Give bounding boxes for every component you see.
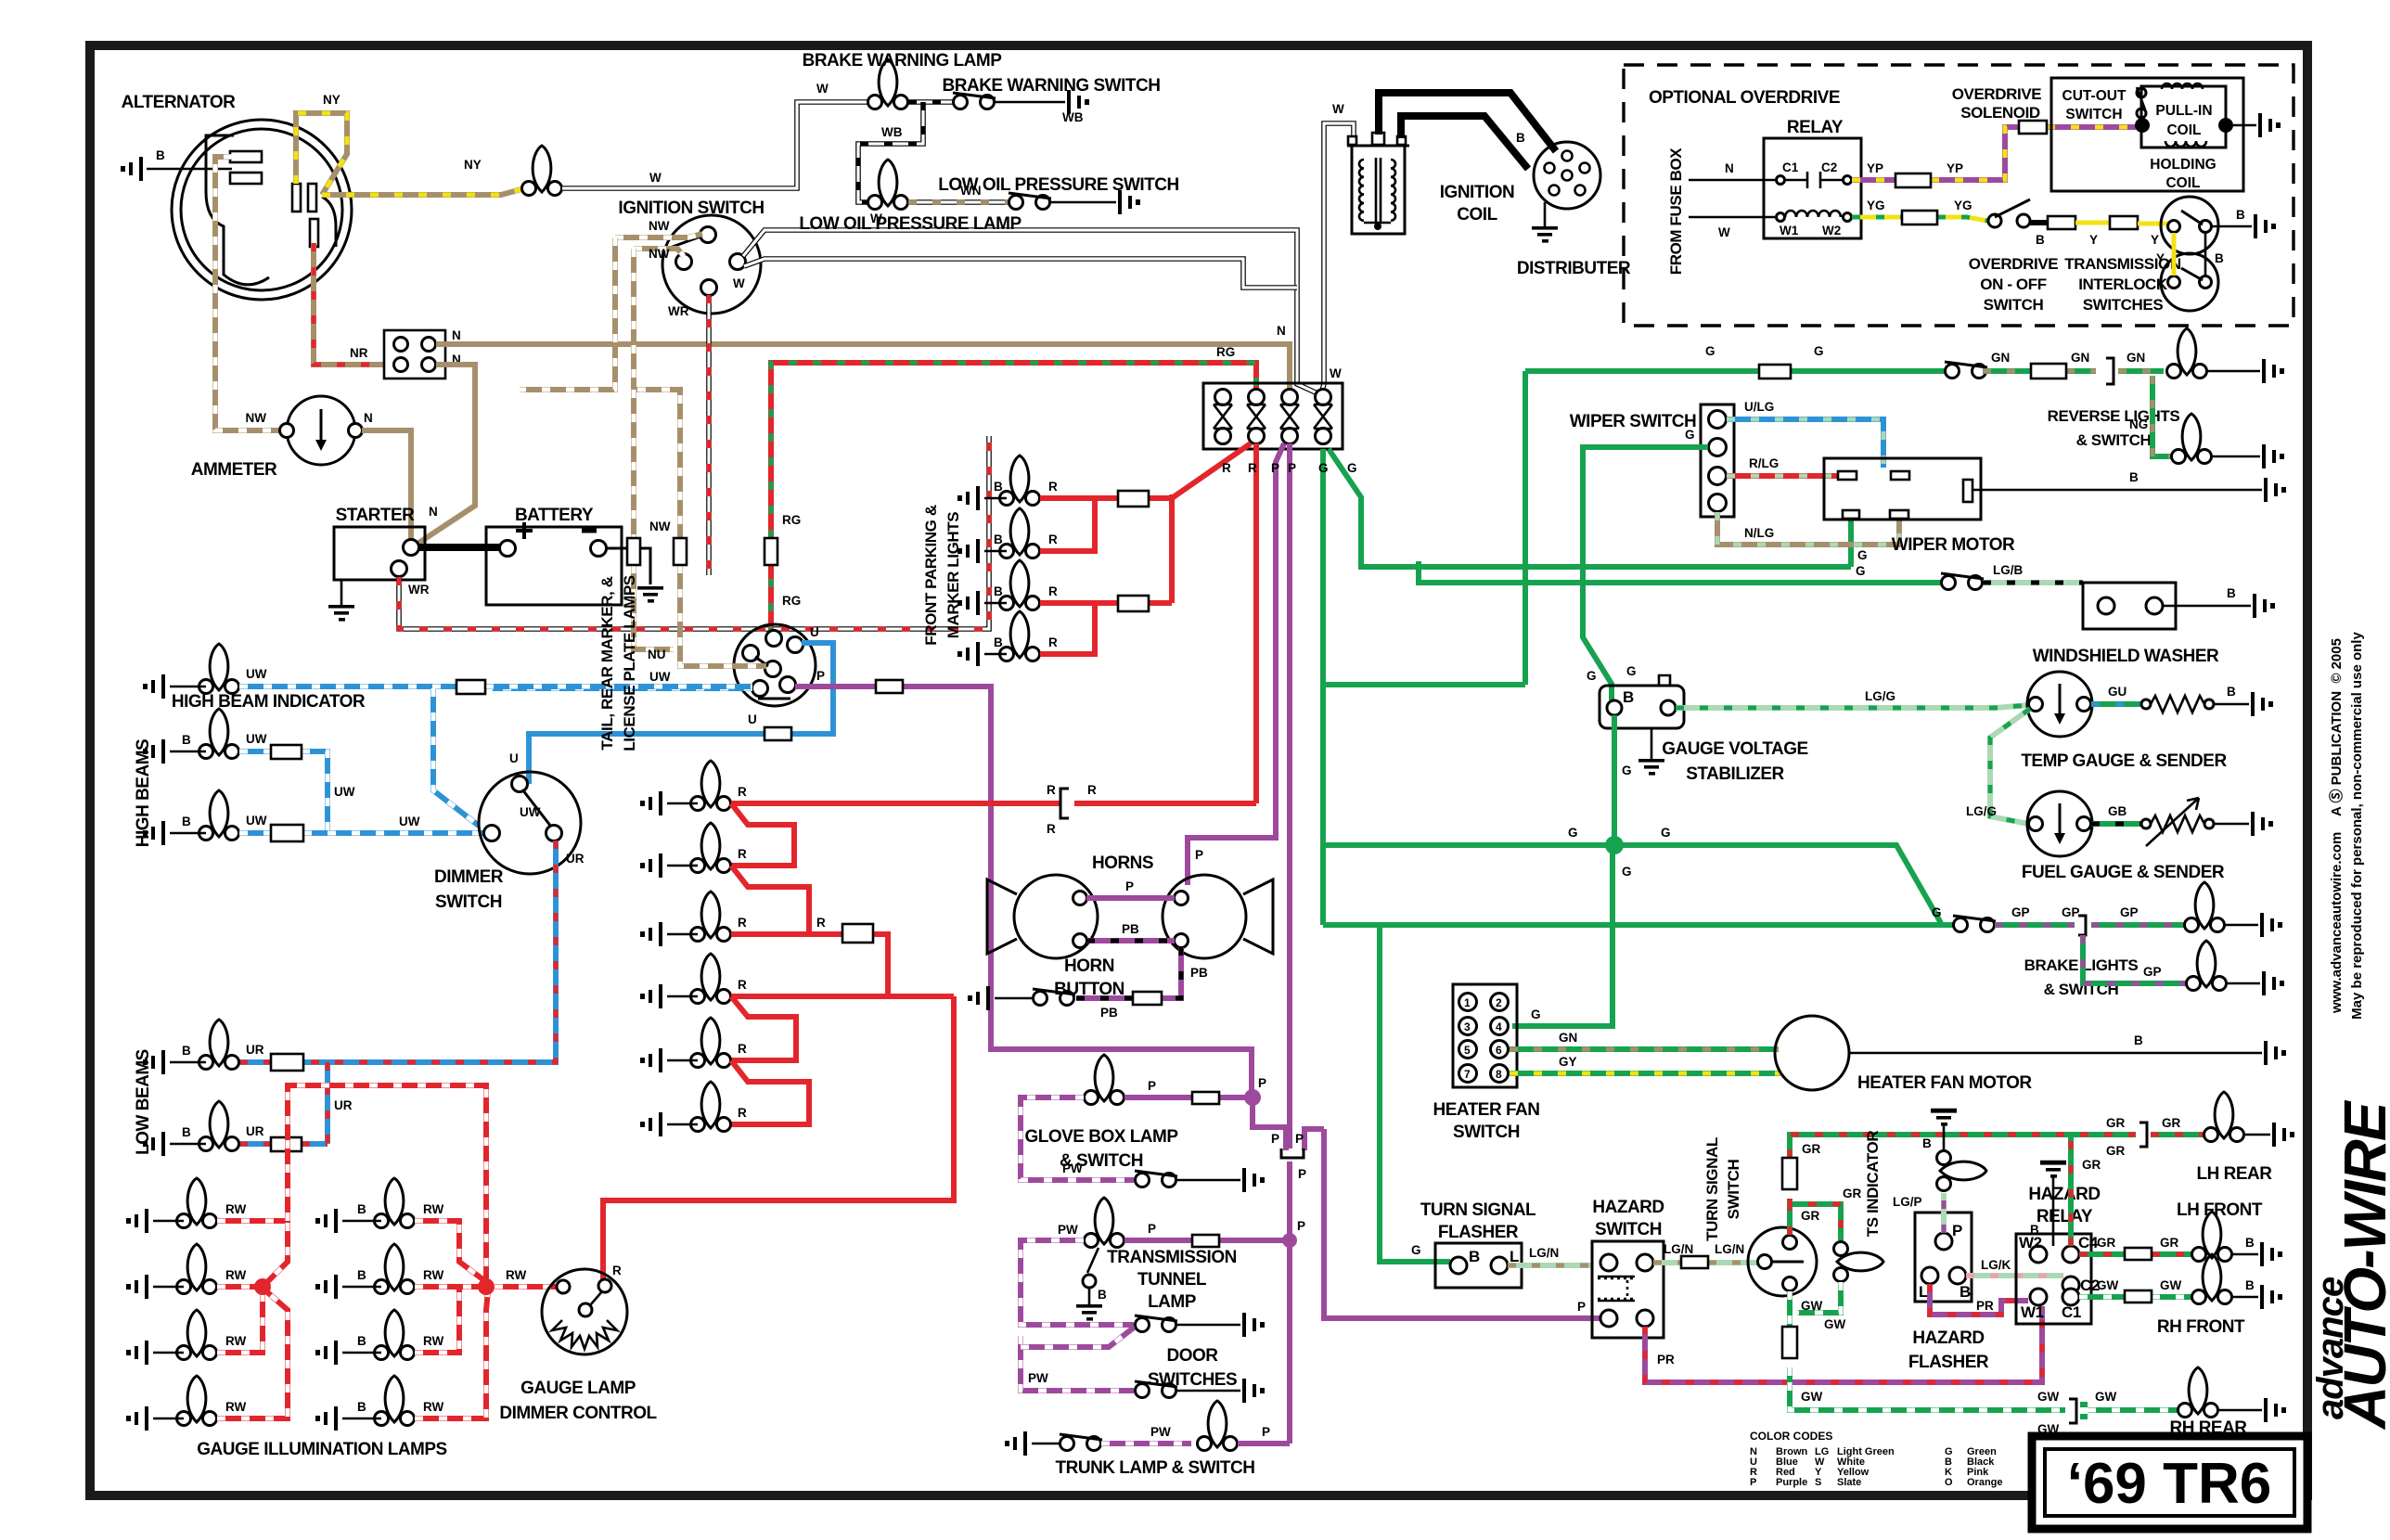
cut-out contacts — [2137, 88, 2146, 97]
svg-text:P: P — [1148, 1079, 1156, 1093]
svg-text:P: P — [1298, 1167, 1306, 1181]
wire LG/N flasher to hazard sw — [1508, 1263, 1592, 1268]
wire R/LG wiper — [1727, 473, 1842, 479]
svg-text:GP: GP — [2120, 905, 2139, 919]
svg-text:MARKER LIGHTS: MARKER LIGHTS — [944, 512, 962, 639]
wire B interlock to gnd — [2212, 225, 2252, 228]
svg-text:C2: C2 — [1821, 160, 1837, 174]
svg-text:P: P — [1271, 1132, 1279, 1146]
svg-text:DIMMER CONTROL: DIMMER CONTROL — [499, 1404, 657, 1423]
svg-text:ON - OFF: ON - OFF — [1980, 276, 2046, 293]
svg-text:AUTO-WIRE: AUTO-WIRE — [2332, 1099, 2390, 1431]
svg-text:UR: UR — [246, 1043, 264, 1057]
wire G to turn signal flasher — [1380, 925, 1450, 1262]
svg-text:INTERLOCK: INTERLOCK — [2078, 276, 2168, 293]
svg-text:GP: GP — [2062, 905, 2080, 919]
svg-text:R/LG: R/LG — [1749, 456, 1779, 470]
svg-text:PR: PR — [1657, 1353, 1675, 1367]
svg-text:W: W — [649, 171, 662, 185]
horn left — [1014, 875, 1098, 958]
svg-text:IGNITION: IGNITION — [1440, 183, 1514, 202]
wire UW lightswitch left — [493, 686, 752, 691]
svg-text:G: G — [1685, 428, 1695, 442]
svg-text:LG/K: LG/K — [1981, 1258, 2011, 1272]
svg-text:FLASHER: FLASHER — [1438, 1223, 1519, 1242]
svg-text:P: P — [1750, 1477, 1756, 1488]
svg-text:GR: GR — [1843, 1187, 1862, 1200]
svg-text:Y: Y — [2089, 233, 2098, 247]
wire PW glove — [1021, 1097, 1134, 1180]
svg-text:NR: NR — [350, 346, 368, 360]
svg-text:GR: GR — [2097, 1236, 2116, 1250]
svg-text:3: 3 — [1464, 1020, 1471, 1033]
svg-text:PB: PB — [1190, 966, 1208, 980]
brake warning lamp — [868, 59, 908, 109]
svg-text:P: P — [1195, 848, 1203, 862]
svg-text:DIMMER: DIMMER — [434, 867, 504, 887]
low beam lamp 2 — [199, 1101, 239, 1151]
svg-text:G: G — [1411, 1243, 1421, 1257]
wire G wiper switch — [1583, 447, 1708, 700]
svg-text:N: N — [1725, 161, 1734, 175]
svg-text:GP: GP — [2143, 965, 2162, 979]
tail lamp B — [691, 823, 731, 873]
wire N from fuse box — [1689, 179, 1776, 182]
svg-text:OPTIONAL OVERDRIVE: OPTIONAL OVERDRIVE — [1649, 88, 1840, 108]
svg-text:SWITCH: SWITCH — [435, 892, 502, 912]
wire GW relay C1 to RH front — [2079, 1294, 2191, 1300]
svg-text:P: P — [1258, 1076, 1266, 1090]
svg-text:S: S — [1815, 1477, 1821, 1488]
wire YG relay to on-off switch — [1852, 217, 1987, 221]
starter earth — [341, 580, 343, 605]
svg-text:B: B — [2245, 1236, 2255, 1250]
wire P fuse outputs — [1253, 443, 1290, 1444]
svg-text:Y: Y — [2156, 251, 2165, 265]
svg-text:TUNNEL: TUNNEL — [1137, 1270, 1207, 1290]
wire R dimmer control feed — [603, 996, 954, 1284]
svg-text:P: P — [816, 669, 825, 683]
svg-text:P: P — [1577, 1300, 1586, 1314]
high beam indicator — [199, 644, 239, 694]
svg-text:C4: C4 — [2078, 1234, 2099, 1251]
svg-text:RG: RG — [782, 594, 801, 608]
svg-text:5: 5 — [1464, 1044, 1471, 1057]
svg-text:G: G — [1318, 461, 1329, 475]
svg-text:N: N — [364, 411, 373, 425]
svg-text:G: G — [1814, 344, 1824, 358]
svg-text:FRONT PARKING &: FRONT PARKING & — [922, 505, 940, 646]
svg-text:SWITCHES: SWITCHES — [1148, 1370, 1237, 1390]
svg-text:B: B — [994, 635, 1003, 649]
cut-out switch box — [2051, 78, 2243, 191]
svg-text:RELAY: RELAY — [1787, 118, 1844, 137]
svg-text:LOW OIL PRESSURE SWITCH: LOW OIL PRESSURE SWITCH — [938, 175, 1178, 195]
svg-text:GW: GW — [1801, 1299, 1823, 1313]
svg-text:GW: GW — [1824, 1317, 1846, 1331]
svg-text:C1: C1 — [1782, 160, 1799, 174]
wire UW indicator to light switch — [239, 687, 752, 826]
col2 lamps — [375, 1178, 415, 1228]
low beam lamp 1 — [199, 1020, 239, 1070]
advance AUTO-WIRE logo — [2310, 1099, 2390, 1431]
pull-in coil inner box — [2141, 86, 2226, 148]
battery minus to earth — [607, 548, 650, 584]
svg-text:R: R — [738, 1042, 747, 1056]
svg-text:May be reproduced for personal: May be reproduced for personal, non-comm… — [2349, 632, 2365, 1020]
wire LG/G drop to fuel — [1990, 709, 2030, 824]
fuel sender variable resistor — [2141, 819, 2151, 828]
wire G cross link — [1323, 682, 1525, 687]
relay connector block — [384, 330, 445, 379]
svg-text:NW: NW — [246, 411, 267, 425]
svg-text:YP: YP — [1867, 161, 1883, 175]
wire WR starter bottom — [399, 436, 989, 629]
svg-text:R: R — [1248, 461, 1257, 475]
glove box lamp — [1085, 1055, 1124, 1105]
connector bracket R — [1060, 789, 1069, 818]
svg-text:R: R — [1047, 783, 1056, 797]
wire NW2 to ignition — [634, 249, 684, 256]
wire NW alternator down — [215, 157, 283, 430]
wire GP brake lamp2 — [2083, 935, 2186, 983]
svg-text:G: G — [1932, 905, 1942, 919]
svg-text:SWITCH: SWITCH — [1595, 1220, 1662, 1239]
svg-text:W1: W1 — [1780, 224, 1799, 237]
svg-text:B: B — [1098, 1288, 1107, 1302]
svg-text:P: P — [1148, 1222, 1156, 1236]
junction dot P glove — [1244, 1089, 1261, 1106]
wire WR ignition bottom — [706, 295, 712, 575]
lamp above hazard flasher — [1937, 1151, 1987, 1191]
svg-text:RW: RW — [225, 1400, 247, 1414]
wire PB horn to button — [1076, 947, 1181, 998]
svg-text:B: B — [2227, 685, 2236, 699]
parking lamp 1 — [1000, 456, 1040, 506]
wire NU to light switch — [680, 565, 766, 666]
svg-text:N/LG: N/LG — [1744, 526, 1774, 540]
svg-text:B: B — [357, 1334, 366, 1348]
svg-text:R: R — [612, 1264, 622, 1277]
svg-text:UR: UR — [566, 852, 585, 866]
svg-text:BRAKE WARNING LAMP: BRAKE WARNING LAMP — [803, 51, 1003, 71]
svg-text:C1: C1 — [2062, 1303, 2081, 1321]
svg-text:Purple: Purple — [1776, 1477, 1807, 1488]
svg-text:RELAY: RELAY — [2037, 1207, 2093, 1226]
svg-text:PW: PW — [1028, 1371, 1048, 1385]
wire UW hb1 — [239, 751, 328, 833]
wire UR dimmer down — [239, 841, 556, 1144]
svg-text:NW: NW — [649, 219, 670, 233]
wire LG/K hazard flasher to relay C2 — [1966, 1273, 2063, 1278]
svg-text:NY: NY — [323, 93, 341, 107]
svg-text:R: R — [1048, 584, 1058, 598]
fuse box — [1203, 383, 1343, 449]
wire LG/N hazard to TS switch — [1653, 1260, 1759, 1265]
svg-text:L: L — [1919, 1283, 1928, 1301]
wire PB horns — [1086, 938, 1175, 943]
svg-text:B: B — [2236, 208, 2245, 222]
wire GY heater — [1510, 1071, 1780, 1076]
capacitor symbol — [1785, 172, 1843, 188]
svg-text:NU: NU — [648, 648, 666, 661]
svg-text:P: P — [1125, 879, 1134, 893]
svg-text:RW: RW — [506, 1268, 527, 1282]
svg-text:R: R — [738, 785, 747, 799]
svg-text:STABILIZER: STABILIZER — [1686, 764, 1784, 784]
wire R jog A-B — [731, 803, 794, 866]
svg-text:UW: UW — [399, 815, 420, 828]
reverse lamp 1 — [2167, 328, 2207, 379]
svg-text:RW: RW — [225, 1202, 247, 1216]
svg-text:8: 8 — [1496, 1068, 1502, 1081]
wire N/LG wiper — [1717, 512, 1899, 545]
wire P fuse to horns — [1188, 482, 1276, 885]
wire B switch to fuse — [2030, 220, 2048, 225]
svg-text:B: B — [357, 1202, 366, 1216]
svg-text:U: U — [509, 751, 519, 765]
wire G stabilizer to junction dot — [1612, 715, 1617, 845]
svg-text:U: U — [810, 625, 819, 639]
wire PR hazard flasher to relay — [1930, 1284, 2028, 1315]
wire PW tunnel to door switches — [1021, 1240, 1134, 1391]
svg-text:NW: NW — [649, 247, 670, 261]
wire GW long to RH rear — [1790, 1382, 2178, 1417]
svg-text:GR: GR — [2082, 1158, 2101, 1172]
svg-text:P: P — [1288, 461, 1296, 475]
wire GU temp to sender — [2091, 701, 2143, 707]
wire GR branch to TS indicator — [1790, 1199, 1841, 1240]
svg-text:SWITCH: SWITCH — [2065, 107, 2122, 122]
svg-text:REVERSE LIGHTS: REVERSE LIGHTS — [2048, 407, 2180, 425]
svg-text:HAZARD: HAZARD — [2028, 1185, 2100, 1204]
svg-text:HORNS: HORNS — [1092, 853, 1153, 873]
svg-text:HAZARD: HAZARD — [1912, 1328, 1984, 1348]
svg-text:RG: RG — [782, 513, 801, 527]
svg-text:B: B — [1516, 131, 1525, 145]
svg-text:DISTRIBUTER: DISTRIBUTER — [1517, 259, 1631, 278]
ground pull-in — [2233, 124, 2256, 127]
wire NG reverse lamp2 — [2152, 376, 2171, 456]
dimmer switch — [479, 772, 581, 874]
svg-text:R: R — [738, 847, 747, 861]
wire U light switch loop — [529, 643, 833, 784]
svg-text:B: B — [156, 148, 165, 162]
svg-text:TEMP GAUGE & SENDER: TEMP GAUGE & SENDER — [2021, 751, 2227, 771]
svg-text:PULL-IN: PULL-IN — [2155, 103, 2212, 119]
svg-text:GW: GW — [2160, 1278, 2182, 1292]
horn right — [1163, 875, 1246, 958]
svg-text:FROM FUSE BOX: FROM FUSE BOX — [1667, 148, 1685, 276]
heater fan motor — [1775, 1016, 1849, 1090]
svg-text:GR: GR — [2160, 1236, 2179, 1250]
ammeter — [287, 396, 355, 465]
svg-text:PB: PB — [1100, 1006, 1118, 1020]
relay box — [1764, 138, 1861, 238]
svg-text:WB: WB — [881, 125, 903, 139]
svg-text:LAMP: LAMP — [1148, 1292, 1197, 1312]
svg-text:YP: YP — [1947, 161, 1963, 175]
svg-text:PW: PW — [1062, 1161, 1083, 1175]
wire NW1 to ignition — [615, 234, 702, 237]
wire R row A long — [731, 801, 1256, 806]
svg-text:RW: RW — [423, 1268, 444, 1282]
wire P horns — [1086, 895, 1175, 901]
wire R row C to trunk — [731, 934, 888, 996]
svg-text:R: R — [1048, 480, 1058, 494]
svg-text:GN: GN — [1991, 351, 2010, 365]
wire N relay lower to ignition drop — [418, 365, 475, 544]
svg-text:TS INDICATOR: TS INDICATOR — [1864, 1131, 1882, 1238]
wire RW to dimmer control — [495, 1284, 557, 1290]
svg-text:B: B — [2227, 586, 2236, 600]
battery box — [486, 527, 622, 605]
svg-text:GR: GR — [2162, 1116, 2181, 1130]
RW top link — [288, 1085, 486, 1287]
svg-text:B: B — [2129, 470, 2139, 484]
svg-text:ALTERNATOR: ALTERNATOR — [122, 93, 236, 112]
svg-text:WIPER SWITCH: WIPER SWITCH — [1570, 412, 1697, 431]
wire PR hazard switch down — [1645, 1306, 2042, 1382]
svg-text:G: G — [1622, 764, 1632, 777]
svg-text:WR: WR — [408, 583, 430, 597]
svg-text:GR: GR — [2106, 1116, 2126, 1130]
distributor earth — [1544, 202, 1547, 226]
wire G dot to fusebox column — [1322, 842, 1613, 848]
relay terminals — [1777, 176, 1785, 185]
svg-text:P: P — [1262, 1425, 1270, 1439]
svg-text:B: B — [1469, 1248, 1480, 1265]
svg-text:NY: NY — [464, 158, 482, 172]
svg-text:G: G — [1531, 1007, 1541, 1021]
svg-text:RW: RW — [423, 1202, 444, 1216]
svg-text:B: B — [1623, 688, 1634, 706]
svg-text:B: B — [1960, 1283, 1971, 1301]
svg-text:LG/G: LG/G — [1966, 804, 1997, 818]
wire R jog E-F — [731, 1060, 809, 1124]
wire R fuse outputs — [1253, 443, 1259, 803]
svg-text:SWITCH: SWITCH — [1725, 1160, 1742, 1220]
wire G fuse outputs — [1320, 449, 1326, 925]
wire WB lamp to switch — [908, 99, 953, 105]
wire U/LG wiper — [1727, 419, 1883, 468]
svg-text:P: P — [1295, 1132, 1304, 1146]
wiper motor box — [1824, 458, 1981, 520]
svg-text:BRAKE WARNING SWITCH: BRAKE WARNING SWITCH — [943, 76, 1161, 96]
low oil pressure lamp — [868, 160, 908, 210]
svg-text:R: R — [1222, 461, 1231, 475]
tunnel lamp B earth — [1087, 1248, 1099, 1273]
junction dot col2 — [478, 1278, 495, 1295]
svg-text:B: B — [182, 733, 191, 747]
fuel gauge — [2027, 791, 2092, 856]
wire Y interlock — [2172, 233, 2177, 276]
parking lamp 4 — [1000, 611, 1040, 661]
svg-text:B: B — [357, 1400, 366, 1414]
svg-text:Y: Y — [2151, 233, 2159, 247]
svg-text:4: 4 — [1496, 1020, 1502, 1033]
svg-text:HOLDING: HOLDING — [2150, 157, 2216, 173]
svg-text:U/LG: U/LG — [1744, 400, 1774, 414]
svg-text:G: G — [1705, 344, 1715, 358]
svg-text:G: G — [1587, 669, 1597, 683]
svg-text:W: W — [1330, 366, 1342, 380]
svg-text:UW: UW — [246, 732, 267, 746]
svg-text:WINDSHIELD WASHER: WINDSHIELD WASHER — [2033, 647, 2219, 666]
svg-text:Slate: Slate — [1837, 1477, 1861, 1488]
svg-text:LG/N: LG/N — [1529, 1246, 1559, 1260]
svg-text:W2: W2 — [1822, 224, 1841, 237]
svg-text:B: B — [2215, 251, 2224, 265]
svg-text:GB: GB — [2108, 804, 2127, 818]
wire W lamp to brake warning lamp — [562, 102, 867, 188]
svg-text:GN: GN — [2071, 351, 2089, 365]
svg-text:WIPER MOTOR: WIPER MOTOR — [1892, 535, 2015, 555]
thick cable starter-battery — [419, 544, 499, 551]
svg-text:SWITCHES: SWITCHES — [2083, 296, 2164, 314]
svg-text:W: W — [1718, 225, 1730, 239]
brake warning switch — [953, 93, 996, 109]
svg-text:U: U — [748, 712, 757, 726]
svg-text:TURN SIGNAL: TURN SIGNAL — [1420, 1200, 1536, 1220]
svg-text:HAZARD: HAZARD — [1592, 1198, 1664, 1217]
col2 RW wiring — [415, 1221, 489, 1418]
svg-text:& SWITCH: & SWITCH — [2076, 431, 2152, 449]
wire GW TS indicator down — [1790, 1282, 1841, 1382]
wire P light switch right — [795, 687, 1252, 1095]
svg-text:B: B — [2134, 1033, 2143, 1047]
wire NR alternator to relay block — [314, 243, 392, 365]
svg-text:UW: UW — [334, 785, 355, 799]
svg-text:GW: GW — [1801, 1390, 1823, 1404]
svg-text:SWITCH: SWITCH — [1984, 296, 2044, 314]
svg-text:N: N — [429, 505, 438, 519]
starter box — [334, 527, 425, 580]
wire YP relay to solenoid — [1852, 127, 2136, 180]
svg-text:TAIL, REAR MARKER, &: TAIL, REAR MARKER, & — [598, 576, 616, 750]
svg-text:R: R — [1048, 533, 1058, 546]
svg-text:B: B — [2030, 1223, 2039, 1237]
svg-text:COIL: COIL — [2165, 175, 2200, 191]
svg-text:BATTERY: BATTERY — [515, 506, 594, 525]
svg-text:R: R — [1087, 783, 1097, 797]
svg-text:W: W — [1332, 102, 1344, 116]
wire NY alternator to charge lamp — [296, 113, 521, 195]
svg-text:G: G — [1856, 564, 1866, 578]
wire N ammeter to starter — [362, 430, 411, 542]
svg-text:W: W — [733, 276, 745, 290]
wire W ignition right terminals — [743, 230, 1317, 393]
svg-text:OVERDRIVE: OVERDRIVE — [1952, 85, 2042, 103]
ignition coil — [1347, 133, 1409, 234]
svg-text:GR: GR — [1801, 1209, 1820, 1223]
svg-text:GN: GN — [1559, 1031, 1577, 1045]
svg-text:GAUGE ILLUMINATION LAMPS: GAUGE ILLUMINATION LAMPS — [197, 1440, 446, 1459]
svg-text:R: R — [1048, 635, 1058, 649]
svg-text:GAUGE VOLTAGE: GAUGE VOLTAGE — [1662, 739, 1807, 759]
svg-text:GY: GY — [1559, 1055, 1577, 1069]
temp gauge — [2027, 672, 2092, 737]
svg-text:1: 1 — [1464, 996, 1471, 1009]
svg-text:UW: UW — [246, 814, 267, 828]
wire B wiper motor — [1972, 489, 2262, 492]
alternator slot terminals — [230, 151, 262, 162]
low oil pressure switch — [1009, 193, 1051, 210]
svg-text:WB: WB — [1062, 110, 1084, 124]
thick cable coil to distributor — [1379, 93, 1556, 151]
tail lamp A — [691, 761, 731, 811]
svg-text:N: N — [1277, 324, 1286, 338]
